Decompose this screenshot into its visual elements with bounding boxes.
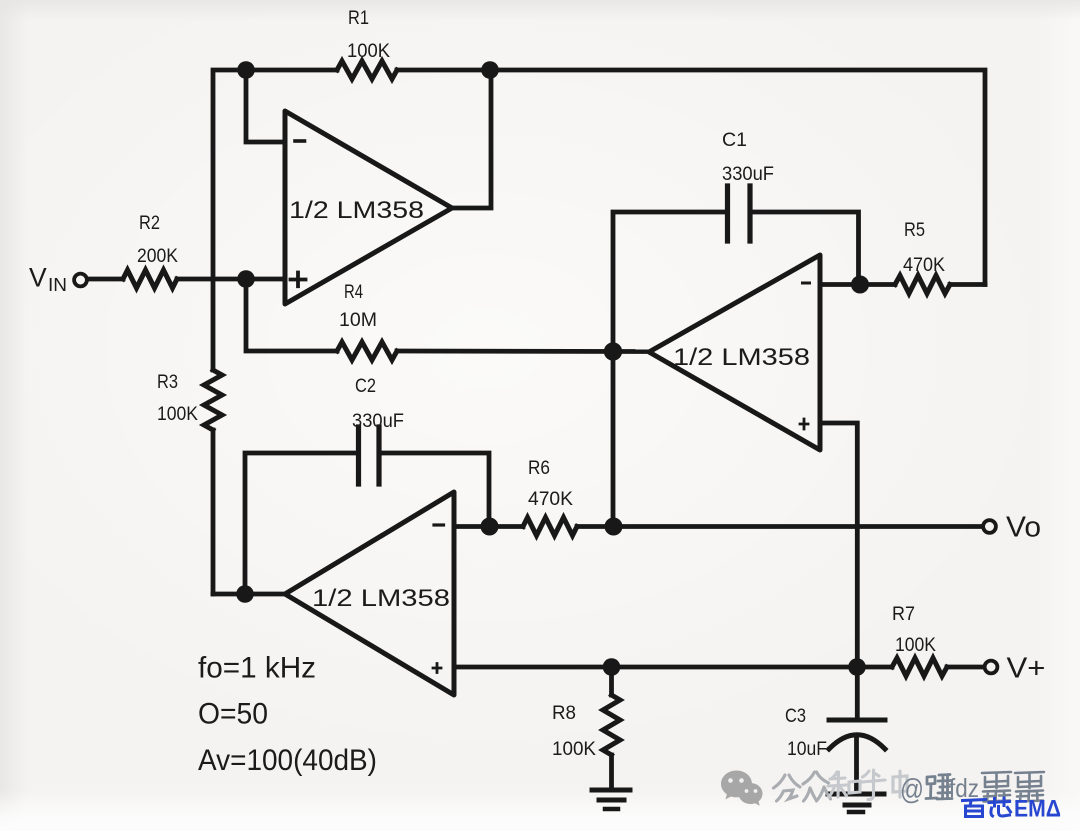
svg-text:R7: R7 — [892, 604, 915, 625]
svg-text:C3: C3 — [785, 706, 806, 727]
svg-text:O=50: O=50 — [198, 698, 268, 731]
svg-text:Vo: Vo — [1006, 512, 1041, 544]
svg-text:200K: 200K — [137, 246, 178, 267]
svg-text:1/2 LM358: 1/2 LM358 — [673, 344, 810, 371]
svg-text:1/2 LM358: 1/2 LM358 — [312, 585, 450, 612]
svg-text:330uF: 330uF — [722, 164, 774, 185]
svg-text:R6: R6 — [528, 458, 550, 479]
svg-text:C2: C2 — [355, 376, 376, 397]
svg-text:100K: 100K — [552, 739, 596, 760]
svg-text:1/2 LM358: 1/2 LM358 — [289, 197, 424, 224]
svg-text:470K: 470K — [903, 255, 945, 276]
svg-text:IN: IN — [48, 275, 67, 295]
svg-text:Av=100(40dB): Av=100(40dB) — [198, 744, 377, 777]
svg-text:470K: 470K — [528, 489, 573, 510]
svg-text:R5: R5 — [904, 220, 925, 241]
svg-text:10M: 10M — [339, 310, 377, 331]
svg-text:10uF: 10uF — [787, 739, 827, 760]
svg-text:100K: 100K — [347, 41, 390, 62]
svg-text:EMΔ: EMΔ — [1014, 796, 1061, 823]
svg-text:R1: R1 — [348, 8, 369, 29]
svg-text:R4: R4 — [344, 282, 363, 303]
svg-text:@: @ — [900, 774, 924, 806]
svg-text:C1: C1 — [722, 130, 747, 151]
svg-text:V: V — [29, 263, 47, 293]
svg-text:R8: R8 — [552, 703, 576, 724]
svg-text:V+: V+ — [1007, 653, 1046, 685]
svg-text:R2: R2 — [139, 213, 160, 234]
svg-text:fo=1 kHz: fo=1 kHz — [198, 652, 316, 685]
svg-text:100K: 100K — [895, 635, 936, 656]
svg-text:330uF: 330uF — [352, 411, 404, 432]
svg-text:R3: R3 — [157, 372, 178, 393]
svg-text:100K: 100K — [157, 404, 198, 425]
